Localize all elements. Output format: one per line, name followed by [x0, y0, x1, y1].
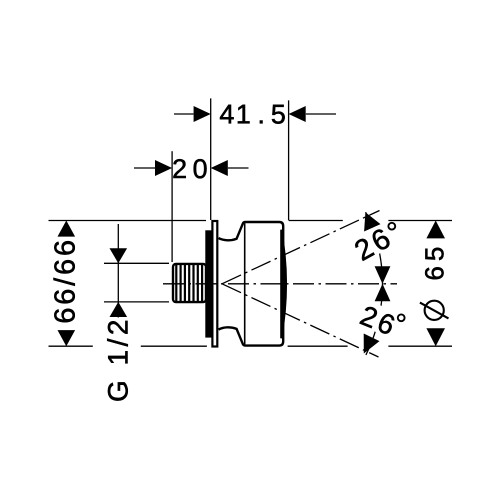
upper 26 text [353, 227, 391, 261]
body outline (neck + cylinder) [219, 222, 284, 346]
gasket (black rectangle) [205, 230, 211, 337]
threaded nipple G1/2 [173, 263, 206, 303]
dim 66/66 text [54, 241, 75, 322]
bottom horizontal line (left of plate, broken at G1/2 text) [49, 345, 207, 347]
escutcheon plate [212, 221, 217, 347]
dim 20 text [173, 159, 206, 178]
top horizontal line (right side, broken at angle arrow) [289, 220, 452, 222]
dim 20 extension line [171, 151, 173, 262]
upper 26-degree dashed line [222, 211, 380, 284]
center axis line [163, 283, 397, 285]
dim 20 dimension line and arrows [134, 167, 249, 169]
diameter symbol [425, 301, 444, 320]
degree symbol (upper 26) [388, 223, 395, 230]
dim G1/2 dimension line [117, 224, 119, 318]
angle arrowheads [364, 212, 380, 231]
dim 41.5 text [220, 105, 285, 124]
white mask for upper 26 text [345, 217, 405, 267]
lower 26 text [359, 305, 396, 335]
degree symbol (lower 26) [398, 314, 405, 321]
angle dim arcs [366, 212, 383, 355]
body left tangent line [244, 223, 246, 344]
spherical face crescent [281, 230, 286, 339]
lower 26-degree dashed line [222, 284, 379, 357]
dim 66/66 arrows [58, 221, 76, 237]
dim diameter 65 arrows [426, 221, 445, 239]
white mask for lower 26 text [352, 297, 412, 343]
dim G1/2 text [107, 321, 128, 401]
thread hatch lines [176, 263, 202, 303]
dim 41.5 dimension line and arrows [174, 113, 336, 115]
dim diameter 65 text [425, 248, 444, 280]
dim 41.5 extension lines [211, 98, 289, 220]
top horizontal line (left of plate) [49, 220, 207, 222]
bottom horizontal line (right side, broken at angle arrow) [288, 345, 452, 347]
dim G1/2 extension ticks [104, 263, 169, 302]
